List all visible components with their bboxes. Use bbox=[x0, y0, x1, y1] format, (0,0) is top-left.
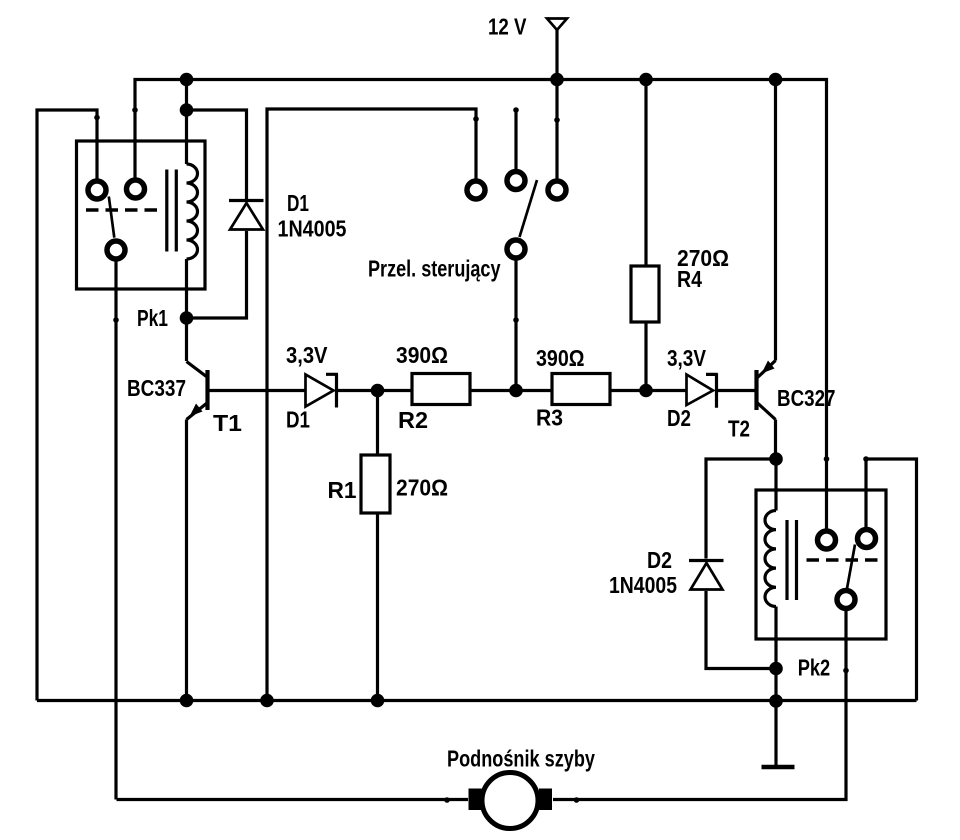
node small dot motor right bbox=[574, 797, 580, 803]
svg-text:R1: R1 bbox=[328, 477, 357, 503]
ground bar bbox=[762, 765, 795, 770]
node small dot switch common wire bbox=[513, 317, 519, 323]
switch contact circle 2 bbox=[507, 172, 525, 190]
svg-text:D2: D2 bbox=[667, 405, 691, 431]
relay Pk1 core lines bbox=[167, 170, 177, 252]
transistor T2 base bar bbox=[754, 370, 758, 410]
node dot T2 collector bbox=[769, 452, 783, 466]
diode D1 flyback triangle bbox=[230, 203, 263, 230]
motor right brush bbox=[539, 789, 552, 811]
node dot bus-Pk1coil bbox=[180, 73, 194, 87]
node dot bottom bus switch bbox=[260, 694, 274, 708]
wire zener D2 to T2 base bbox=[718, 389, 755, 392]
wire left outer loop to Pk1 contact 1 bbox=[37, 110, 97, 701]
transistor T2 emitter arrow bbox=[762, 361, 775, 374]
node dot D1 top bbox=[180, 103, 194, 117]
node dot bottom bus T1 bbox=[180, 694, 194, 708]
relay Pk2 box bbox=[756, 490, 886, 639]
zener D1 bar bbox=[326, 374, 338, 408]
diode D1 flyback bar bbox=[229, 199, 264, 202]
wire D2 flyback bottom branch bbox=[706, 591, 776, 669]
resistor R4 box bbox=[631, 266, 659, 322]
node dot Pk2 bbox=[769, 662, 783, 676]
svg-text:T2: T2 bbox=[728, 416, 750, 442]
wire control-switch feed from bottom bus up and over to contact 1 bbox=[267, 109, 476, 701]
relay Pk2 coil bbox=[765, 511, 776, 607]
wire R2 to R3 bbox=[470, 389, 552, 392]
switch lever bbox=[520, 180, 538, 237]
relay Pk2 contact circle B bbox=[858, 530, 876, 548]
wire T1 emitter down to bottom bus bbox=[185, 420, 188, 701]
node small dot Pk2 common wire bbox=[843, 668, 849, 674]
relay Pk1 contact circle 2 bbox=[127, 180, 145, 198]
node small dot motor left bbox=[444, 797, 450, 803]
relay Pk2 lever bbox=[847, 545, 855, 589]
wire switch contact 2 stem bbox=[514, 110, 517, 170]
svg-text:3,3V: 3,3V bbox=[286, 342, 328, 368]
wire Pk1 coil bottom to Pk1 node bbox=[185, 259, 188, 361]
svg-text:Pk2: Pk2 bbox=[798, 655, 831, 681]
node dot bus-R4 bbox=[639, 73, 653, 87]
wire D1 top branch bbox=[187, 110, 247, 199]
relay Pk2 common contact circle bbox=[837, 591, 855, 609]
wire Pk2 common contact down to motor line bbox=[553, 611, 846, 800]
resistor R4 top wire bbox=[644, 80, 647, 267]
zener D1 triangle bbox=[306, 375, 334, 407]
resistor R3 box bbox=[552, 374, 610, 405]
wire T2 collector down to Pk2 node bbox=[774, 420, 777, 460]
transistor T1 collector wire bbox=[187, 362, 208, 378]
svg-text:D1: D1 bbox=[286, 407, 310, 433]
svg-text:T1: T1 bbox=[213, 410, 242, 436]
node small dot switch c1 wire bbox=[473, 116, 479, 122]
node small dot Pk1 c2 wire bbox=[132, 107, 138, 113]
switch common circle bbox=[507, 240, 525, 258]
node dot R4 bottom bbox=[639, 384, 653, 398]
transistor T1 emitter wire bbox=[187, 403, 208, 420]
wire D1 bottom branch to Pk1 node bbox=[187, 231, 247, 318]
svg-text:D2: D2 bbox=[647, 547, 672, 573]
resistor R1 bottom wire bbox=[376, 513, 379, 701]
diode D2 flyback bar bbox=[689, 559, 724, 562]
motor Podnosnik szyby circle bbox=[482, 773, 538, 829]
resistor R2 box bbox=[412, 374, 470, 405]
wire Pk2 coil top bbox=[774, 459, 777, 511]
wire Pk2 contact B to outer right bbox=[866, 459, 917, 701]
relay Pk2 core lines bbox=[787, 520, 797, 600]
wire zener D1 to R2 bbox=[338, 389, 412, 392]
svg-text:12 V: 12 V bbox=[488, 14, 527, 40]
zener D2 bar bbox=[706, 373, 718, 407]
node dot bottom bus R1 bbox=[371, 694, 385, 708]
transistor T1 base bar bbox=[205, 370, 209, 410]
node small dot Pk1 common wire bbox=[113, 317, 119, 323]
wire T2 emitter up to bus bbox=[774, 80, 777, 361]
relay Pk1 coil bbox=[187, 164, 198, 259]
relay Pk1 contact circle 1 bbox=[88, 181, 106, 199]
node dot bus-12V bbox=[550, 73, 564, 87]
node small dot switch c2 wire bbox=[513, 107, 519, 113]
wire R3 to zener D2 bbox=[610, 389, 686, 392]
svg-text:BC337: BC337 bbox=[127, 375, 186, 401]
motor left brush bbox=[469, 789, 482, 811]
switch contact circle 3 bbox=[548, 181, 566, 199]
ground stem bbox=[774, 701, 777, 766]
wire main +12V bus with ends down to Pk1 contact and Pk2 contact bbox=[135, 80, 827, 530]
svg-text:Pk1: Pk1 bbox=[137, 305, 168, 331]
wire Pk1 coil top feed x=186 bbox=[185, 80, 188, 165]
svg-text:BC327: BC327 bbox=[777, 385, 836, 411]
svg-text:R3: R3 bbox=[536, 405, 563, 431]
svg-text:R4: R4 bbox=[677, 266, 702, 292]
diode D2 flyback triangle bbox=[691, 563, 723, 590]
svg-text:Podnośnik szyby: Podnośnik szyby bbox=[447, 746, 595, 772]
resistor R4 bottom wire bbox=[644, 322, 647, 391]
svg-text:3,3V: 3,3V bbox=[667, 345, 707, 371]
svg-text:Przel. sterujący: Przel. sterujący bbox=[368, 256, 501, 282]
wire Pk1 common contact down to motor line bbox=[116, 261, 468, 800]
node small dot Pk2 A wire bbox=[824, 456, 830, 462]
transistor T2 collector wire bbox=[758, 403, 776, 420]
relay Pk1 dashed line bbox=[86, 208, 157, 212]
node dot bus-T2 bbox=[769, 73, 783, 87]
wire bottom bus bbox=[37, 699, 917, 702]
svg-text:390Ω: 390Ω bbox=[536, 345, 585, 371]
svg-text:1N4005: 1N4005 bbox=[609, 572, 677, 598]
node dot R2-R3 bbox=[509, 384, 523, 398]
relay Pk2 contact circle A bbox=[818, 531, 836, 549]
transistor T2 emitter wire bbox=[758, 361, 776, 378]
zener D2 triangle bbox=[687, 375, 714, 406]
svg-text:390Ω: 390Ω bbox=[396, 342, 448, 368]
svg-text:1N4005: 1N4005 bbox=[278, 216, 347, 242]
wire Pk2 coil bottom to Pk2 node bbox=[774, 607, 777, 702]
wire switch common down to R2/R3 node bbox=[514, 260, 517, 391]
svg-text:R2: R2 bbox=[398, 407, 428, 433]
node small dot Pk1 c1 wire bbox=[94, 115, 100, 121]
relay Pk1 lever bbox=[109, 197, 115, 238]
relay Pk1 box bbox=[77, 141, 206, 289]
wire T1 base to zener D1 bbox=[209, 389, 306, 392]
svg-text:270Ω: 270Ω bbox=[396, 475, 448, 501]
resistor R1 top wire bbox=[376, 391, 379, 456]
svg-text:D1: D1 bbox=[287, 190, 309, 216]
node dot R1 top bbox=[371, 384, 385, 398]
relay Pk1 common contact circle bbox=[107, 241, 125, 259]
node dot Pk1 bbox=[180, 311, 194, 325]
wire 12V stem bbox=[555, 30, 558, 80]
transistor T1 emitter arrow bbox=[190, 404, 203, 417]
wire switch contact 3 stem bbox=[555, 80, 558, 180]
node small dot switch c3 wire bbox=[554, 117, 560, 123]
wire D2 flyback top branch bbox=[706, 459, 776, 559]
resistor R1 box bbox=[361, 455, 390, 513]
node 12V supply symbol bbox=[547, 19, 567, 31]
relay Pk2 dashed line bbox=[807, 558, 879, 562]
switch contact circle 1 bbox=[467, 181, 485, 199]
node small dot Pk2 B wire bbox=[863, 456, 869, 462]
node dot bottom bus ground bbox=[769, 694, 783, 708]
